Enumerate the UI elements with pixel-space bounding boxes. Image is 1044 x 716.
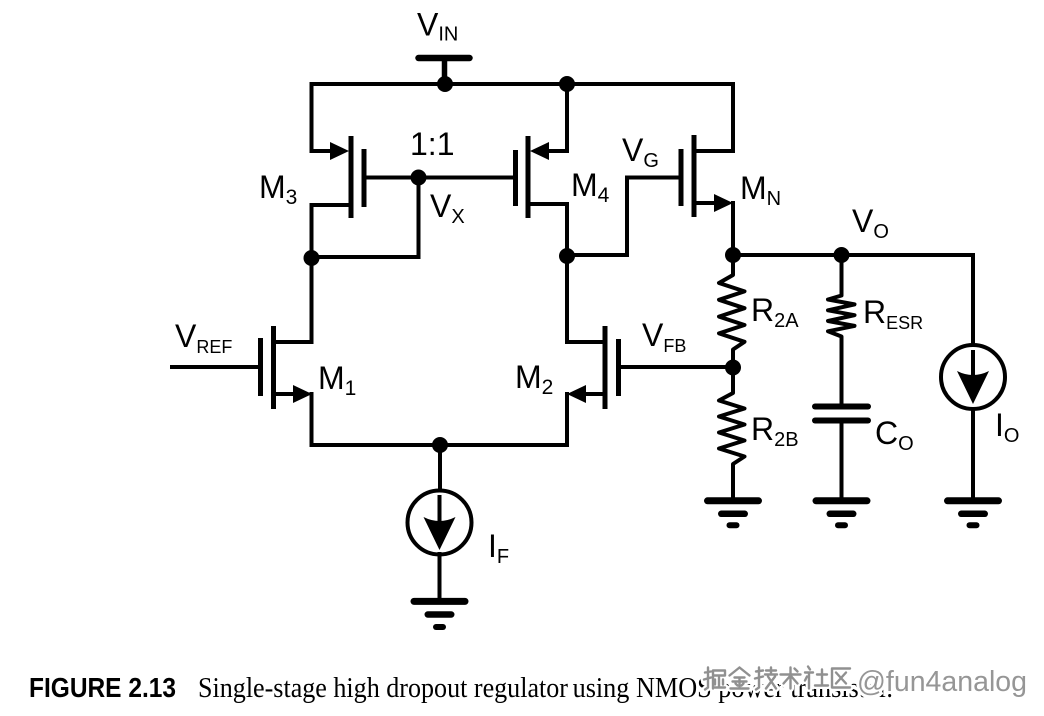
svg-text:R2B: R2B — [751, 411, 799, 451]
svg-text:IF: IF — [488, 528, 509, 568]
wire M3 gate lead to node VX — [366, 176, 419, 180]
svg-text:Single-stage high dropout regu: Single-stage high dropout regulator — [198, 673, 568, 704]
current source IO circle — [941, 345, 1005, 409]
resistor R2A — [719, 263, 745, 367]
resistor R2B — [719, 368, 745, 499]
node dot VIN — [437, 76, 453, 92]
transistor M1 source arrow — [293, 385, 312, 403]
svg-text:IO: IO — [995, 407, 1019, 447]
transistor M2 channel bar — [603, 329, 608, 407]
transistor M1 channel bar — [271, 329, 276, 407]
transistor M1 gate bar — [258, 341, 263, 394]
svg-text:VG: VG — [622, 132, 659, 172]
wire IO drop — [971, 255, 975, 345]
capacitor CO bottom plate — [815, 418, 868, 424]
node VX dot — [411, 170, 427, 186]
transistor MN gate bar — [679, 152, 684, 204]
watermark CJK strokes — [704, 667, 850, 690]
transistor M3 channel bar — [349, 139, 354, 216]
wire IF tail drop — [438, 445, 442, 490]
wire M1 source lead — [274, 392, 295, 396]
wire MN source lead — [694, 201, 716, 205]
wire M2 drain lead — [567, 256, 605, 342]
wire M4 drain lead — [528, 204, 567, 256]
svg-text:MN: MN — [740, 170, 781, 210]
svg-text:FIGURE 2.13: FIGURE 2.13 — [29, 672, 176, 703]
node M4 drain dot — [559, 248, 575, 264]
wire tail — [312, 443, 568, 447]
svg-text:VIN: VIN — [417, 7, 458, 46]
svg-text:VREF: VREF — [175, 318, 232, 357]
svg-text:VO: VO — [852, 203, 889, 243]
ground under IF — [414, 598, 465, 605]
transistor M3 source arrow — [330, 142, 349, 160]
node tail dot — [432, 437, 448, 453]
svg-text:M3: M3 — [259, 169, 297, 209]
svg-text:@fun4analog: @fun4analog — [857, 666, 1027, 698]
transistor M3 source lead — [312, 149, 335, 153]
node VO dot — [834, 247, 850, 263]
wire M1 source down — [310, 394, 314, 445]
current source IO arrow — [971, 352, 975, 378]
svg-text:1:1: 1:1 — [410, 126, 454, 162]
transistor M2 source arrow — [567, 385, 586, 403]
wire M4 source lead — [547, 84, 567, 151]
wire MN source down — [731, 203, 735, 255]
wire node VG routing — [567, 178, 679, 256]
power VIN bar — [419, 55, 470, 62]
transistor M4 channel bar — [526, 139, 531, 216]
svg-text:M1: M1 — [318, 360, 356, 400]
wire VIN stub — [442, 58, 448, 84]
svg-text:RESR: RESR — [863, 294, 923, 333]
capacitor CO top plate — [815, 404, 868, 410]
svg-text:CO: CO — [875, 415, 914, 455]
svg-text:M2: M2 — [515, 359, 553, 399]
transistor MN source arrow — [714, 194, 733, 212]
wire CO to ground — [840, 421, 844, 499]
transistor M1 gate lead VREF — [172, 365, 258, 369]
wire IF to ground — [438, 554, 442, 598]
current source IF arrow — [438, 497, 442, 524]
current source IO arrowhead — [957, 371, 989, 404]
watermark halo — [704, 667, 850, 690]
svg-text:VFB: VFB — [642, 317, 686, 356]
ground under CO — [816, 497, 867, 504]
current source IF arrowhead — [424, 517, 456, 550]
transistor M3 gate bar — [362, 152, 367, 205]
svg-text:M4: M4 — [571, 167, 610, 207]
node M3 drain dot — [304, 250, 320, 266]
node VFB dot — [725, 360, 741, 376]
transistor M4 source arrow — [530, 142, 549, 160]
node MN source dot — [725, 247, 741, 263]
ground under R2B — [708, 497, 759, 504]
wire output VO rail — [733, 253, 973, 257]
transistor M2 gate bar — [616, 342, 621, 394]
wire M3 drain lead — [312, 205, 352, 258]
node dot M4 source at rail — [559, 76, 575, 92]
wire node VX down-left leg — [312, 178, 419, 258]
wire M1 drain lead — [274, 258, 312, 342]
wire MN drain lead — [694, 84, 733, 151]
transistor M4 gate bar — [513, 153, 518, 204]
wire IO to ground — [971, 409, 975, 498]
current source IF circle — [408, 491, 472, 555]
wire M2 source down — [565, 394, 569, 445]
wire top rail VIN — [312, 84, 734, 151]
svg-text:R2A: R2A — [751, 292, 799, 332]
transistor M4 gate lead from VX — [419, 176, 514, 180]
ground under IO — [948, 497, 999, 504]
transistor MN channel bar — [692, 138, 697, 215]
transistor M2 gate lead to VFB — [621, 365, 733, 369]
resistor RESR — [828, 255, 855, 403]
wire M2 source lead — [584, 392, 605, 396]
svg-text:VX: VX — [430, 188, 465, 228]
